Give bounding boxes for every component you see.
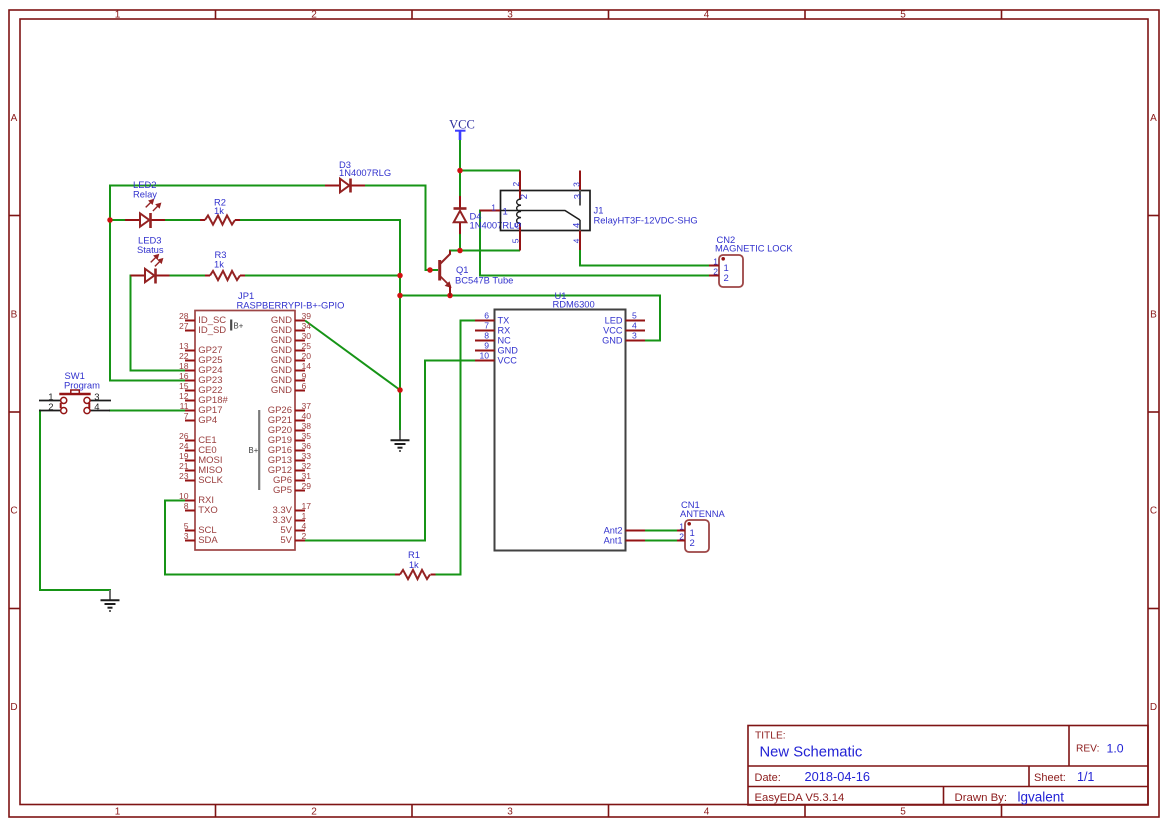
svg-text:Sheet:: Sheet: [1034,772,1066,784]
svg-text:D: D [10,702,17,713]
svg-text:REV:: REV: [1076,744,1099,755]
svg-text:1: 1 [713,256,718,266]
junction Q1 base [427,267,433,273]
relay J1 switch contact [501,211,581,221]
diode D4 pins [459,196,461,234]
svg-text:1/1: 1/1 [1077,770,1094,784]
LED2 arrows [146,200,161,211]
JP1 pin 7 GP4 [184,411,217,426]
svg-text:2: 2 [519,194,530,199]
switch SW1 symbol [59,390,90,414]
svg-text:1: 1 [115,807,121,818]
ruler tick left B|C [9,411,20,413]
connector CN2 box [719,255,743,287]
svg-text:31: 31 [302,471,312,481]
ruler label C right [1150,506,1157,517]
ruler label 5 top [900,10,906,21]
svg-text:C: C [1150,506,1157,517]
IC U1 box [495,310,626,551]
svg-text:7: 7 [484,321,489,331]
switch SW1 pin number 4 [94,402,99,413]
JP1 pin 39 GND [271,311,311,326]
svg-text:GND: GND [602,336,623,346]
wire R2 to vertical x400 [239,220,400,431]
svg-text:GND: GND [498,346,519,356]
svg-text:9: 9 [484,341,489,351]
resistor R2 symbol [205,215,235,224]
U1 pin 4 VCC [603,321,645,336]
svg-text:3: 3 [573,194,584,199]
title block title New Schematic [760,745,863,761]
title block REV column separator [1068,726,1070,767]
svg-text:4: 4 [704,10,710,21]
resistor R3 symbol [210,271,240,280]
svg-text:D: D [1150,702,1157,713]
svg-text:LED: LED [605,316,623,326]
JP1 pin 9 GND [271,371,307,386]
JP1 pin 27 ID_SD [179,321,226,336]
svg-text:RelayHT3F-12VDC-SHG: RelayHT3F-12VDC-SHG [594,215,698,226]
svg-text:New Schematic: New Schematic [760,745,863,761]
connector CN2 pin1 marker dot [721,257,725,261]
svg-text:C: C [10,506,17,517]
ruler label 1 top [115,10,121,21]
ruler tick top 3|4 [608,10,610,19]
svg-text:4: 4 [704,807,710,818]
resistor R2 pins [200,219,240,221]
JP1 pin 19 MOSI [179,451,223,466]
ruler tick bottom 2|3 [411,805,413,818]
svg-text:8: 8 [184,501,189,511]
svg-text:33: 33 [302,451,312,461]
JP1 pin 2 5V [280,531,306,546]
wire U1 GND pin3 stub [644,340,661,342]
svg-text:B+: B+ [234,322,244,331]
JP1 pin 13 GP27 [179,341,223,356]
svg-text:2: 2 [511,182,521,187]
connector CN2 pin 1 [709,256,729,274]
ruler label 5 bottom [900,807,906,818]
ruler tick top 4|5 [804,10,806,19]
svg-text:1k: 1k [214,259,224,270]
relay J1 pin 4 [579,220,581,250]
ruler label D right [1150,702,1157,713]
LED2 symbol [140,213,151,228]
svg-text:EasyEDA V5.3.14: EasyEDA V5.3.14 [755,792,845,804]
switch SW1 pin number 1 [48,392,53,403]
svg-text:GP4: GP4 [198,415,217,426]
JP1 pin 15 GP22 [179,381,223,396]
svg-text:VCC: VCC [449,117,475,131]
relay J1 pin number 1 inside [503,207,508,218]
connector JP1 label [237,290,345,310]
LED3 label [137,235,164,256]
relay J1 pin 3 [579,171,581,206]
U1 pin 8 NC [475,331,511,346]
wire net GP23 top: LED2/D3 horizontal [110,185,325,187]
svg-text:5: 5 [511,238,521,243]
title block author lgvalent [1018,790,1065,805]
title block EasyEDA V5.3.14 [755,792,845,804]
U1 pin Ant1 [604,536,645,546]
connector CN2 label [715,234,793,254]
ruler tick right A|B [1148,215,1159,217]
svg-text:3: 3 [184,531,189,541]
JP1 pin 10 RXI [179,491,214,506]
svg-text:B+: B+ [249,446,259,455]
wire relay pin4 to CN2 pin1 [580,249,710,266]
svg-text:9: 9 [302,371,307,381]
diode D4 label [470,211,522,231]
svg-text:Drawn By:: Drawn By: [955,792,1008,804]
svg-text:RX: RX [498,326,511,336]
relay J1 pin number 2 outside [511,182,521,187]
svg-text:5: 5 [184,521,189,531]
svg-text:24: 24 [179,441,189,451]
svg-text:25: 25 [302,341,312,351]
svg-text:2: 2 [311,807,317,818]
ruler tick left A|B [9,215,20,217]
svg-text:2: 2 [302,531,307,541]
JP1 pin 12 GP18# [179,391,229,406]
svg-text:4: 4 [302,521,307,531]
wire U1 Ant1 to CN1 pin2 [644,540,677,542]
JP1 pin 8 TXO [184,501,218,516]
title block sheet value 1/1 [1077,770,1094,784]
svg-text:22: 22 [179,351,189,361]
svg-text:35: 35 [302,431,312,441]
JP1 pin 36 GP16 [268,441,312,456]
JP1 pin 22 GP25 [179,351,223,366]
wire U1 VCC pin10 to JP1 5V [304,361,476,541]
IC U1 label [553,290,595,310]
svg-text:1N4007RLG: 1N4007RLG [339,167,391,178]
title block DrawnBy column separator [943,787,945,806]
svg-text:26: 26 [179,431,189,441]
connector CN1 box [685,520,709,552]
JP1 pin 20 GND [271,351,311,366]
svg-text:lgvalent: lgvalent [1018,790,1065,805]
ruler label A right [1150,113,1157,124]
title block Sheet column separator [1028,766,1030,787]
wire net GP23 left vertical [109,185,111,382]
JP1 pin 37 GP26 [268,401,312,416]
ruler tick top 1|2 [215,10,217,19]
LED3 pins [131,275,170,277]
title block outline [748,726,1148,806]
svg-text:6: 6 [302,381,307,391]
ruler tick bottom 3|4 [608,805,610,818]
svg-text:2: 2 [311,10,317,21]
title block label TITLE: [755,731,786,742]
svg-text:5: 5 [513,222,524,227]
wire diagonal JP1 GND pin39 to ground rail [305,321,400,391]
junction D4/collector row [457,248,463,254]
JP1 pin 5 SCL [184,521,217,536]
ruler tick left C|D [9,608,20,610]
JP1 pin 35 GP19 [268,431,312,446]
svg-text:1: 1 [491,203,496,213]
junction ground rail/emitter row [397,293,403,299]
connector CN1 pin 1 [677,521,695,539]
wire Q1 collector to relay pin5 [449,250,520,252]
svg-text:Program: Program [64,380,100,391]
svg-text:TITLE:: TITLE: [755,731,786,742]
JP1 pin 23 SCLK [179,471,224,486]
JP1 pin 33 GP13 [268,451,312,466]
U1 pin 10 VCC [475,351,517,366]
svg-text:36: 36 [302,441,312,451]
resistor R1 symbol [400,570,430,579]
title block label Drawn By: [955,792,1008,804]
svg-text:BC547B Tube: BC547B Tube [455,275,513,286]
wire VCC junction to relay pin2 [459,170,520,172]
ground symbol bottom left [101,590,120,611]
resistor R3 pins [205,275,245,277]
svg-text:A: A [1150,113,1157,124]
svg-text:8: 8 [484,331,489,341]
svg-text:1: 1 [302,511,307,521]
wire LED2 anode from junction [109,219,126,221]
ruler tick top 2|3 [411,10,413,19]
ruler label 3 bottom [507,807,513,818]
svg-text:Status: Status [137,244,164,255]
svg-text:3: 3 [507,10,513,21]
junction Q1 emitter [447,293,453,299]
diode D4 symbol [454,209,467,223]
svg-text:5V: 5V [280,535,292,546]
title block date 2018-04-16 [805,769,870,784]
svg-text:3: 3 [632,331,637,341]
JP1 pin 4 5V [280,521,306,536]
svg-text:40: 40 [302,411,312,421]
wire D3 cathode to Q1 base [365,186,438,271]
wire D4 anode to collector junction [459,234,461,251]
JP1 pin 40 GP21 [268,411,312,426]
junction LED2/GP23 [107,217,113,223]
connector CN2 pin 2 [709,267,729,284]
JP1 pin 6 GND [271,381,307,396]
JP1 pin 1 3.3V [272,511,306,526]
svg-text:3: 3 [507,807,513,818]
svg-text:34: 34 [302,321,312,331]
switch SW1 pin number 2 [48,402,53,413]
JP1 pin 31 GP6 [273,471,311,486]
svg-text:SDA: SDA [198,535,218,546]
ruler label 4 bottom [704,807,710,818]
ruler label A left [11,113,18,124]
ruler tick bottom 4|5 [804,805,806,818]
svg-text:TX: TX [498,316,510,326]
svg-text:38: 38 [302,421,312,431]
wire R3 to vertical x400 [244,275,401,277]
svg-text:14: 14 [302,361,312,371]
junction R3/ground rail [397,273,403,279]
svg-text:1: 1 [115,10,121,21]
svg-text:SCLK: SCLK [198,475,223,486]
relay J1 coil [517,199,521,224]
JP1 pin 17 3.3V [272,501,311,516]
svg-text:GP5: GP5 [273,485,292,496]
JP1 pin 18 GP24 [179,361,223,376]
LED3 arrows [151,255,163,267]
JP1 B+ marker middle [249,410,260,490]
JP1 pin 14 GND [271,361,311,376]
wire RXI to R1 left [165,501,396,575]
svg-text:39: 39 [302,311,312,321]
svg-text:1k: 1k [214,205,224,216]
relay J1 label [594,205,698,226]
U1 pin Ant2 [604,526,645,536]
connector JP1 box [195,311,295,551]
svg-text:11: 11 [180,401,189,411]
JP1 pin 26 CE1 [179,431,217,446]
ruler label 3 top [507,10,513,21]
ruler tick right C|D [1148,608,1159,610]
JP1 B+ marker top [231,320,244,331]
connector CN1 label [680,499,726,519]
ruler tick right B|C [1148,411,1159,413]
svg-text:4: 4 [632,321,637,331]
U1 pin 6 TX [475,311,509,326]
svg-text:ID_SD: ID_SD [198,325,226,336]
svg-text:4: 4 [572,223,583,228]
ruler label 1 bottom [115,807,121,818]
svg-text:29: 29 [302,481,312,491]
svg-text:2: 2 [48,402,53,413]
svg-text:3: 3 [571,182,581,187]
svg-text:B: B [11,309,18,320]
svg-text:4: 4 [94,402,99,413]
wire LED3 cathode to R3 [169,275,206,277]
relay J1 pin 5 [519,224,521,251]
ruler label 4 top [704,10,710,21]
JP1 pin 3 SDA [184,531,219,546]
ruler tick top 5|6 [1001,10,1003,19]
wire SW1 to GP17 [109,410,185,412]
ruler label 2 bottom [311,807,317,818]
relay J1 pin number 4 outside [571,238,581,243]
JP1 pin 21 MISO [179,461,223,476]
svg-text:30: 30 [302,331,312,341]
svg-text:13: 13 [179,341,189,351]
svg-text:20: 20 [302,351,312,361]
switch SW1 pin number 3 [94,392,99,403]
title block row separator 2 [748,786,1148,788]
wire emitter GND row [399,296,660,341]
ruler label D left [10,702,17,713]
JP1 pin 32 GP12 [268,461,312,476]
svg-text:28: 28 [179,311,189,321]
wire R1 right to U1 TX [435,321,476,575]
ruler label 2 top [311,10,317,21]
relay J1 pin number 3 inside [573,194,584,199]
resistor R1 label [408,549,420,570]
ruler tick bottom 5|6 [1001,805,1003,818]
ruler tick bottom 1|2 [215,805,217,818]
svg-text:5: 5 [900,807,906,818]
relay J1 pin number 1 outside [491,203,496,213]
relay J1 pin number 2 inside [519,194,530,199]
switch SW1 pin lines [39,401,111,411]
svg-text:2: 2 [690,538,695,549]
junction ground rail/pin39 diagonal [397,387,403,393]
svg-text:VCC: VCC [498,356,518,366]
svg-text:1k: 1k [409,559,419,570]
diode D3 pins [325,185,365,187]
svg-text:NC: NC [498,336,512,346]
svg-text:TXO: TXO [198,505,218,516]
transistor Q1 label [455,264,513,286]
title block rev value 1.0 [1107,742,1124,756]
svg-text:17: 17 [302,501,312,511]
U1 pin 7 RX [475,321,510,336]
JP1 pin 25 GND [271,341,311,356]
svg-text:ANTENNA: ANTENNA [680,508,726,519]
relay J1 pin number 5 outside [511,238,521,243]
svg-text:2018-04-16: 2018-04-16 [805,769,870,784]
ground symbol near JP1 [391,430,410,451]
svg-text:15: 15 [179,381,189,391]
JP1 pin 30 GND [271,331,311,346]
ruler label B left [11,309,18,320]
svg-text:2: 2 [679,532,684,542]
title block row separator 1 [748,765,1148,767]
svg-text:VCC: VCC [603,326,623,336]
switch SW1 label [64,370,100,391]
svg-text:Ant2: Ant2 [604,526,623,536]
ruler label C left [10,506,17,517]
relay J1 pin 1 [480,210,500,212]
svg-text:4: 4 [571,238,581,243]
svg-text:MAGNETIC LOCK: MAGNETIC LOCK [715,242,793,253]
svg-text:2: 2 [713,267,718,277]
svg-text:16: 16 [179,371,189,381]
wire relay pin1 to CN2 pin2 [480,210,710,276]
svg-text:5: 5 [632,311,637,321]
relay J1 pin 2 [519,171,521,200]
JP1 pin 16 GP23 [179,371,223,386]
transistor Q1 symbol [440,251,451,297]
svg-text:27: 27 [179,321,189,331]
JP1 pin 11 GP17 [180,401,223,416]
relay J1 pin number 3 outside [571,182,581,187]
svg-text:2: 2 [724,273,729,284]
svg-text:Date:: Date: [755,772,781,784]
U1 pin 9 GND [475,341,518,356]
svg-text:7: 7 [184,411,189,421]
svg-text:A: A [11,113,18,124]
connector CN1 pin 2 [677,532,695,549]
svg-text:12: 12 [179,391,189,401]
LED3 symbol [145,269,156,284]
svg-text:23: 23 [179,471,189,481]
svg-text:10: 10 [479,351,489,361]
wire U1 Ant2 to CN1 pin1 [644,530,677,532]
ruler label B right [1150,309,1157,320]
JP1 pin 28 ID_SC [179,311,226,326]
svg-text:1: 1 [503,207,508,218]
title block label Sheet: [1034,772,1066,784]
svg-text:32: 32 [302,461,312,471]
LED2 label [133,179,157,200]
svg-text:Relay: Relay [133,189,157,200]
resistor R3 label [214,249,226,270]
diode D3 label [339,159,391,178]
wire VCC vertical to D4 [459,139,461,196]
JP1 pin 34 GND [271,321,311,336]
wire LED2 cathode to R2 [165,219,201,221]
